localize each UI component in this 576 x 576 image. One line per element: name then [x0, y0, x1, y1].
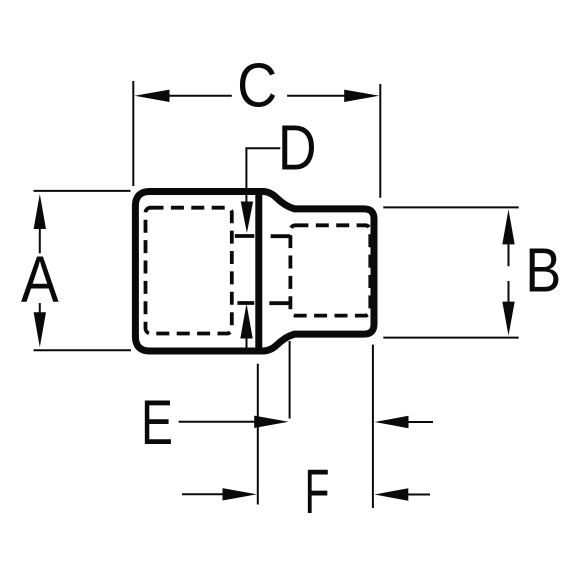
hidden drive square hole (dashed, left) [146, 208, 232, 334]
hidden line square hole top flat [235, 234, 290, 238]
dim F right arrow (points left) [374, 488, 430, 500]
dim A bottom extension line [34, 349, 132, 351]
svg-text:D: D [278, 113, 317, 183]
svg-text:C: C [237, 52, 277, 120]
dim F left extension line [257, 364, 259, 505]
dim D upper arrow (points down) [241, 202, 253, 234]
socket drive body (left square section) [135, 192, 258, 352]
dim F right extension line [372, 345, 374, 508]
dim B bottom extension line [383, 337, 518, 339]
dim E right arrow (points left) [375, 416, 434, 428]
dim C left arrow [135, 90, 232, 102]
dim F left arrow (points right) [182, 488, 257, 500]
dim A upper arrow [34, 194, 46, 253]
dim A top extension line [34, 190, 131, 192]
dim E arrow (points right) [179, 416, 289, 428]
socket nose (right cylindrical section with taper) [259, 192, 374, 352]
svg-text:B: B [525, 236, 561, 305]
svg-text:A: A [21, 243, 59, 316]
hidden fastener socket hole (dashed, right) [290, 225, 370, 315]
svg-text:E: E [141, 387, 173, 458]
dim A lower arrow [34, 303, 46, 347]
dim B lower arrow [502, 281, 514, 336]
dim C left extension line [132, 81, 134, 186]
dim C right arrow [287, 90, 379, 102]
dim B top extension line [383, 206, 518, 208]
dim B upper arrow [502, 209, 514, 266]
hidden line square hole bottom flat [237, 301, 290, 305]
dim E extension line [289, 341, 291, 419]
dim D leader line [246, 148, 280, 203]
svg-text:F: F [305, 457, 330, 527]
dim D lower arrow (points up) [240, 304, 252, 351]
dim C right extension line [379, 84, 381, 198]
